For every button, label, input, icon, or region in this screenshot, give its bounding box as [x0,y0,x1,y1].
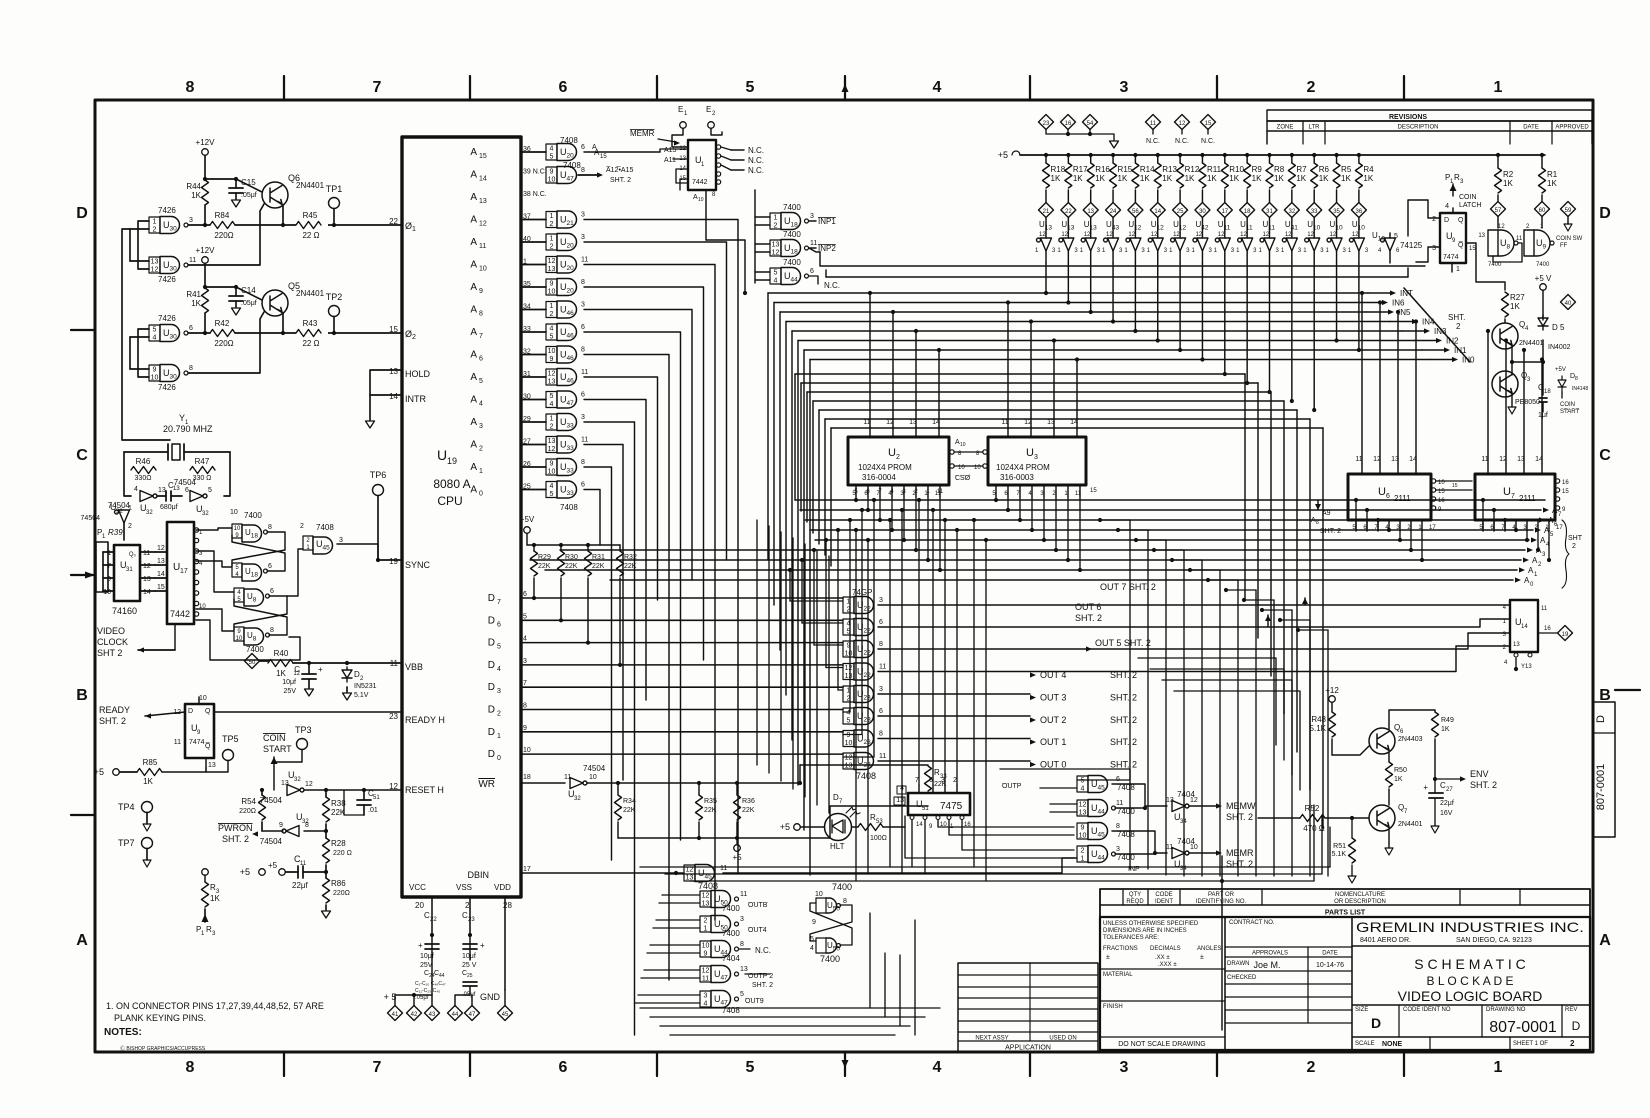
connector block left border [96,542,108,592]
svg-text:7404: 7404 [722,954,740,963]
svg-text:1K: 1K [1095,174,1105,183]
connector diamond pin [1195,203,1210,218]
U2 top pin drops [869,293,871,427]
IC U9 7474 coin latch [1440,213,1466,263]
long wire INP row b [826,276,1408,278]
svg-text:2: 2 [128,523,132,530]
svg-text:11: 11 [1166,844,1173,851]
svg-text:30: 30 [1199,209,1206,215]
svg-text:5: 5 [523,613,527,620]
svg-text:15: 15 [157,584,165,591]
svg-text:1μf: 1μf [1538,412,1548,419]
svg-text:10: 10 [698,197,704,203]
svg-text:12: 12 [1061,232,1068,238]
svg-text:220Ω: 220Ω [239,808,256,815]
connector diamond pin [1307,203,1322,218]
resistor R13 1K [1156,153,1160,157]
svg-text:13: 13 [740,966,748,973]
svg-text:E: E [706,105,711,114]
frame center arrows [842,84,849,92]
wires U17 outputs to gates [196,528,232,530]
svg-text:8: 8 [879,731,883,738]
gate U20 pins 1/2-3 [546,234,557,250]
svg-text:3: 3 [581,414,585,421]
gate U33 pins 9/10-8 [546,459,557,475]
svg-text:B L O C K A D E: B L O C K A D E [1427,974,1514,988]
svg-text:IN4002: IN4002 [1548,344,1571,351]
svg-text:8: 8 [479,311,483,318]
svg-text:23: 23 [1043,121,1050,127]
svg-text:E: E [678,105,683,114]
svg-text:25V: 25V [420,962,433,969]
svg-text:6: 6 [581,144,585,151]
zone tick marks [283,76,285,100]
cascade vertical 0 [1129,520,1131,869]
svg-text:±: ± [1200,954,1204,961]
svg-text:12: 12 [845,755,853,762]
resistor R31 22K [586,543,590,547]
address bus line 3 [810,529,1533,531]
wire inverter 7 to bus [1201,263,1203,360]
svg-text:SHT. 2: SHT. 2 [1110,760,1137,770]
connector pin diamond 50 [245,654,260,669]
svg-text:22 Ω: 22 Ω [302,339,319,348]
data line D7 [521,597,843,599]
svg-text:R42: R42 [215,319,230,328]
svg-text:R40: R40 [274,649,289,658]
svg-text:45: 45 [502,1012,509,1018]
wire from gate row 8 [584,355,669,981]
svg-text:OUT 6: OUT 6 [1075,602,1101,612]
top connector diamonds N.C. [1146,115,1161,130]
svg-text:7400: 7400 [783,203,801,212]
wire U1 pin15 down [680,178,688,180]
wire R2 down to gate [1497,228,1499,230]
svg-text:R85: R85 [143,758,158,767]
wire drop 0 [789,570,791,601]
svg-text:6: 6 [479,356,483,363]
svg-text:9: 9 [1081,825,1085,832]
gate U18 7400 b [232,563,242,577]
svg-text:A: A [470,282,477,293]
svg-text:CPU: CPU [437,494,462,508]
svg-text:U: U [1503,486,1511,498]
svg-text:1: 1 [128,505,132,512]
svg-text:2: 2 [1572,543,1576,550]
svg-text:7400: 7400 [246,645,264,654]
svg-text:11: 11 [174,739,181,746]
svg-text:SHT. 2: SHT. 2 [752,982,773,989]
svg-text:18: 18 [1544,389,1551,395]
gate U44 [700,941,711,957]
svg-text:APPLICATION: APPLICATION [1005,1045,1051,1052]
svg-text:12: 12 [772,250,780,257]
gate U47 [700,991,711,1007]
resistor R1 1K [1540,153,1544,157]
svg-text:51: 51 [922,806,929,812]
svg-text:A: A [470,237,477,248]
svg-text:11: 11 [1516,236,1523,242]
svg-text:IN6: IN6 [1392,299,1405,308]
svg-text:13: 13 [548,438,556,445]
svg-text:12: 12 [1352,232,1359,238]
address bus line 7 [545,569,1517,571]
svg-text:2: 2 [1570,1039,1575,1048]
wire drop 4 [837,530,839,690]
inverter U32 74504 reset a [287,785,304,796]
svg-text:R14: R14 [1140,165,1155,174]
svg-text:IN4: IN4 [1422,318,1435,327]
bottom run 0 [640,866,1330,868]
gate U23 [843,708,854,724]
svg-text:Y13: Y13 [1521,664,1532,670]
address bus line 5 [560,549,1525,551]
capacitor C14 .05uf [234,285,238,289]
svg-text:11: 11 [300,861,307,867]
resistor R2 1K [1496,153,1500,157]
title block main [1100,917,1590,1050]
svg-text:VDD: VDD [494,883,511,892]
wire U18 to U45 [267,532,303,540]
svg-text:11: 11 [935,491,942,497]
IC U3 1024x4 PROM [988,437,1086,485]
svg-text:R17: R17 [1073,165,1088,174]
svg-text:SIZE: SIZE [1355,1007,1368,1013]
svg-text:3: 3 [1432,245,1436,252]
svg-text:8: 8 [581,167,585,174]
svg-text:22K: 22K [565,563,578,570]
vertical wire mid 4 [973,520,975,867]
svg-text:22μf: 22μf [1440,800,1454,807]
svg-text:N.C.: N.C. [748,166,764,175]
resistor R3 1K [202,869,209,876]
svg-text:5: 5 [550,491,554,498]
cascade vertical 1 [1147,530,1149,869]
svg-text:3: 3 [523,658,527,665]
svg-text:5: 5 [746,1059,755,1076]
net IN4 bus line [786,321,1390,323]
svg-text:1: 1 [1081,856,1085,863]
svg-text:2: 2 [300,523,304,530]
wire from gate row 13 [584,467,612,860]
svg-text:40: 40 [1565,301,1572,307]
resistor R10 1K [1223,153,1227,157]
svg-text:R7: R7 [1296,165,1307,174]
svg-text:REVISIONS: REVISIONS [1389,114,1427,121]
svg-text:10: 10 [548,177,556,184]
svg-text:51: 51 [373,795,380,801]
resistor R36 22K [736,783,738,795]
svg-text:WR: WR [478,779,495,790]
svg-text:2N4401: 2N4401 [1519,340,1544,347]
svg-text:A: A [470,147,477,158]
svg-text:11: 11 [720,865,727,872]
svg-text:TP2: TP2 [326,292,343,302]
svg-text:18: 18 [1244,209,1251,215]
svg-text:MATERIAL: MATERIAL [1103,972,1133,978]
svg-text:11: 11 [879,664,886,671]
svg-text:R13: R13 [1162,165,1177,174]
svg-text:A: A [1599,932,1611,949]
svg-text:R6: R6 [1319,165,1330,174]
svg-text:TP5: TP5 [222,734,239,744]
svg-text:4: 4 [479,401,483,408]
U3 bottom pins [995,485,997,497]
resistor R44 1K [202,180,209,205]
svg-text:4: 4 [1081,786,1085,793]
svg-text:9: 9 [550,356,554,363]
wire from gate row 11 [584,422,635,1035]
connector diamond pin [1217,203,1232,218]
resistor R86 220 [325,872,327,878]
svg-text:1K: 1K [1185,174,1195,183]
svg-text:R8: R8 [1274,165,1285,174]
svg-text:.01: .01 [368,807,378,814]
wire run right 3 [1174,691,1300,790]
transistor emitter to phi line [282,205,284,225]
svg-text:+12V: +12V [196,246,216,255]
svg-text:R2: R2 [1503,170,1514,179]
address bus line 1 [800,509,1541,511]
svg-text:11: 11 [581,437,588,444]
svg-text:8: 8 [1316,520,1319,526]
svg-text:COIN SW: COIN SW [1556,236,1583,242]
svg-text:4: 4 [933,79,942,96]
svg-text:7400: 7400 [783,258,801,267]
data line D0 [521,753,843,755]
wire inverter 5 to bus [1157,263,1159,341]
capacitor C11 22uf [259,869,266,876]
svg-text:N.C.: N.C. [748,146,764,155]
U3 bottom pin drops to bus [995,497,997,500]
resistor R48 5.1K [1329,712,1336,737]
svg-text:1: 1 [153,219,157,226]
svg-text:7: 7 [107,563,111,570]
inverter U32 74504 pwron [282,826,299,837]
svg-text:R35: R35 [704,798,717,805]
vertical wire mid 2 [889,520,891,867]
svg-text:1: 1 [479,468,483,475]
cascade vertical 8 [1273,600,1275,876]
svg-text:4: 4 [550,326,554,333]
wire VCC/VSS/VDD pins down [431,897,433,935]
svg-text:NONE: NONE [1382,1041,1403,1048]
wire from gate row 7 [584,332,681,840]
svg-text:13: 13 [151,259,159,266]
wire A11 to U1 [673,158,688,160]
wire crystal loop [124,452,131,496]
svg-text:5: 5 [550,393,554,400]
svg-text:1K: 1K [1341,174,1351,183]
net INT bus line [768,292,1368,294]
svg-text:7400: 7400 [832,882,852,892]
svg-text:COIN: COIN [1560,402,1575,408]
svg-text:15: 15 [1469,246,1476,252]
svg-text:2: 2 [550,221,554,228]
svg-text:START: START [1560,409,1579,415]
svg-text:A: A [470,305,477,316]
svg-text:D: D [488,727,495,738]
resistor R46 330ohm [124,469,131,471]
svg-text:R45: R45 [303,211,318,220]
svg-text:U: U [888,447,896,459]
vertical wire mid 1 [867,540,869,874]
bottom run 2 [690,880,1314,882]
svg-text:+: + [318,665,323,674]
svg-text:R44: R44 [186,182,201,191]
gate U33 pins 13/12-11 [546,437,557,453]
svg-text:PE8050: PE8050 [1515,399,1540,406]
gate U23 [843,753,854,769]
svg-text:NOTES:: NOTES: [104,1027,142,1038]
svg-text:C₁₁-C₂₅ C₄₅: C₁₁-C₂₅ C₄₅ [415,988,440,994]
svg-text:7426: 7426 [158,383,176,392]
wire inverter 2 to bus [1090,263,1092,312]
svg-text:+5V: +5V [1555,367,1566,373]
svg-text:31: 31 [1266,209,1273,215]
svg-text:10: 10 [236,636,243,642]
svg-text:1K: 1K [1073,174,1083,183]
svg-text:R39: R39 [108,528,123,537]
svg-text:14: 14 [1521,624,1528,630]
svg-text:57: 57 [1495,208,1502,214]
svg-text:8: 8 [740,941,744,948]
svg-text:N.C.: N.C. [1146,138,1160,145]
cross coupled wires coin ff [1493,243,1522,262]
resistor R40 1K [260,660,269,662]
wire loop right of cross pair [1221,856,1223,1030]
svg-text:7400: 7400 [244,511,262,520]
wire U45 out to SYNC [337,543,378,545]
svg-text:6: 6 [270,588,274,595]
svg-text:23: 23 [389,712,398,721]
svg-text:10: 10 [1190,844,1198,851]
svg-text:DRAWN: DRAWN [1227,961,1249,967]
svg-text:OR DESCRIPTION: OR DESCRIPTION [1334,899,1386,905]
resistor R33 22K net [618,837,830,839]
vertical wire bottom 1 [884,953,886,1017]
svg-text:Q: Q [205,708,211,715]
svg-text:1K: 1K [191,299,201,308]
svg-text:38 N.C.: 38 N.C. [523,191,547,198]
transistor Q4 2N4401 [1492,323,1518,349]
svg-text:+5: +5 [240,867,250,877]
gate U45 7408 [1077,823,1088,839]
svg-text:11: 11 [143,550,150,557]
svg-text:SAN DIEGO, CA. 92123: SAN DIEGO, CA. 92123 [1456,937,1532,944]
svg-text:2: 2 [1456,322,1461,331]
svg-text:32: 32 [116,509,123,515]
bottom gate input stubs [662,894,700,896]
svg-text:10: 10 [589,774,597,781]
resistor R11 1K [1200,153,1204,157]
svg-text:16V: 16V [1440,810,1453,817]
svg-text:8: 8 [186,79,195,96]
data line D3 [521,686,843,688]
U7 top pin drops [1487,331,1489,464]
svg-text:Ⓒ BISHOP GRAPHICS/ACCUPRESS: Ⓒ BISHOP GRAPHICS/ACCUPRESS [120,1045,206,1052]
svg-text:PLANK KEYING PINS.: PLANK KEYING PINS. [114,1013,206,1023]
svg-text:1K: 1K [1503,179,1513,188]
svg-text:12: 12 [1195,232,1202,238]
resistor R50 1K [1388,753,1390,762]
IC U7 2111 [1475,474,1555,520]
svg-text:74504: 74504 [583,764,606,773]
svg-text:CODE IDENT NO: CODE IDENT NO [1403,1007,1451,1013]
U7 bottom pin rises from bus [1482,500,1484,531]
svg-text:32: 32 [294,777,301,783]
svg-text:14: 14 [916,822,923,828]
bottom run 1 [665,873,1322,875]
svg-text:7400: 7400 [1536,262,1550,268]
wire Q4 to Q3 [1511,345,1513,375]
gate U45 7408 [303,536,313,550]
wire OUT6 to U14 [878,619,1510,627]
svg-text:11: 11 [1075,491,1082,497]
svg-text:D: D [488,705,495,716]
svg-text:8: 8 [270,627,274,634]
svg-text:10: 10 [548,289,556,296]
cascade vertical 2 [1165,540,1167,875]
gate U30 7426 upper [149,217,160,233]
svg-text:12: 12 [1498,224,1505,230]
cascade vertical 6 [1237,580,1239,876]
svg-text:13: 13 [1079,810,1087,817]
svg-text:11: 11 [810,240,817,247]
svg-text:3: 3 [879,597,883,604]
svg-text:19: 19 [447,456,457,466]
svg-text:D: D [1371,1015,1381,1031]
svg-text:4: 4 [550,483,554,490]
transistor Q7 2N4401 [1369,805,1395,831]
svg-text:5: 5 [746,79,755,96]
svg-text:A: A [470,350,477,361]
svg-text:13: 13 [208,762,216,769]
resistor R17 1K [1066,153,1070,157]
svg-text:1: 1 [1456,266,1460,273]
address bus line 6 [530,559,1521,561]
cross wires U18 pair [232,532,285,566]
wire from gate row 14 [584,490,600,546]
svg-text:22μf: 22μf [292,881,309,890]
bus wire row 1 [801,382,1258,384]
svg-text:Joe M.: Joe M. [1253,960,1280,970]
svg-text:44: 44 [439,973,445,979]
svg-text:8: 8 [189,365,193,372]
bus wire row 5 [825,418,1310,420]
resistor R35 22K [698,783,700,795]
svg-text:R34: R34 [623,798,636,805]
vertical wire bottom 3 [914,920,916,1035]
resistor R34 22K [617,783,619,795]
gate U50 [700,891,711,907]
wire from gate row 4 [584,265,715,921]
svg-text:2111: 2111 [1519,494,1536,503]
svg-text:25V: 25V [284,688,297,695]
wire U31 to U17 [155,551,167,553]
svg-text:74160: 74160 [112,606,137,616]
gate U30 7426 upper [149,325,160,341]
wire run right 0 [1138,658,1276,745]
svg-text:1024X4 PROM: 1024X4 PROM [858,463,912,472]
wire reset line [304,789,402,791]
svg-text:+5: +5 [998,150,1008,160]
svg-text:1: 1 [107,550,111,557]
svg-text:13: 13 [1513,642,1520,648]
svg-text:220Ω: 220Ω [214,231,233,240]
svg-text:9: 9 [107,576,111,583]
cascade vertical 10 [1309,620,1311,876]
